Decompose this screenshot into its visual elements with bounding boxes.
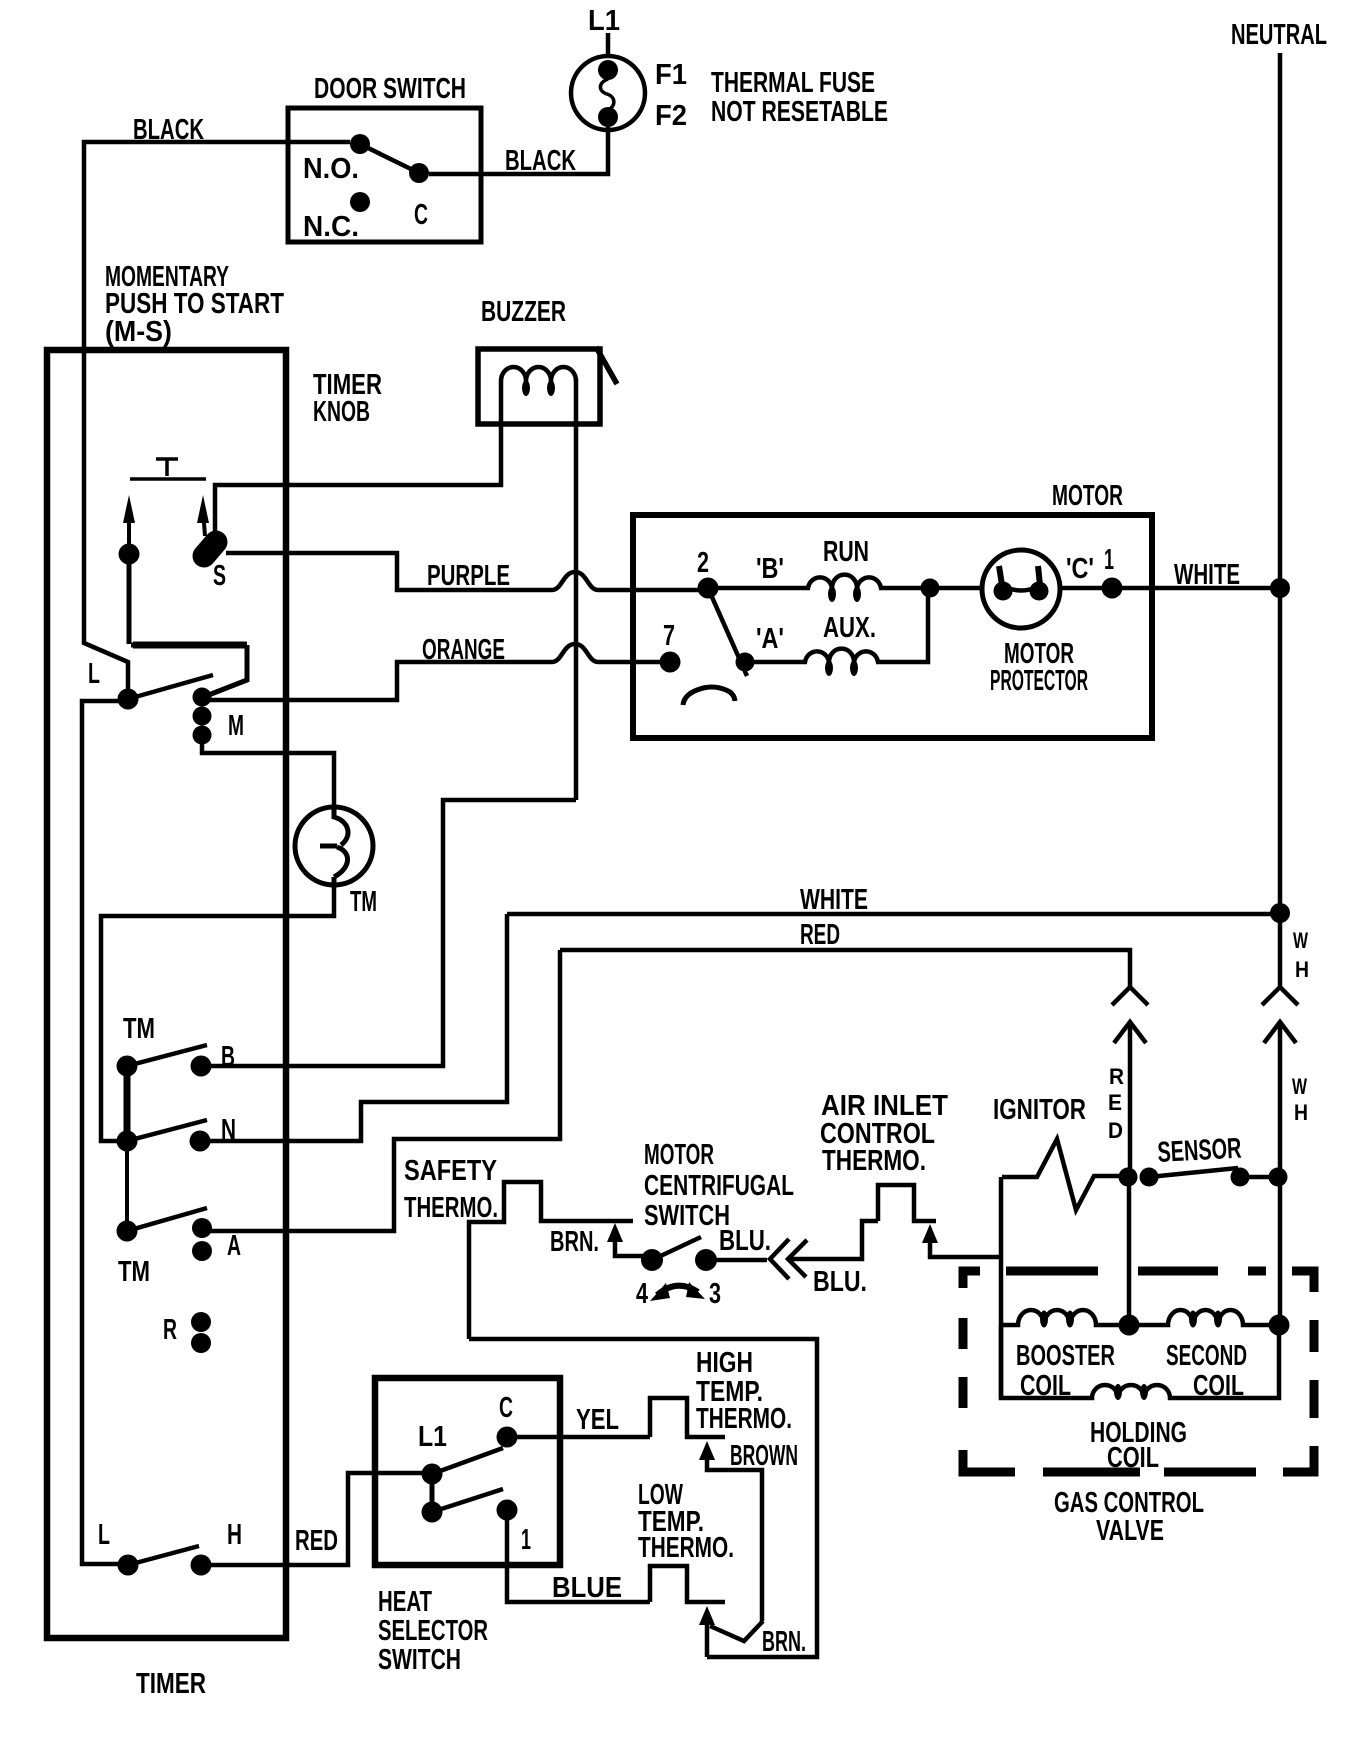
TM-B blade: [127, 1045, 207, 1066]
ignitor left vertical: [999, 1177, 1004, 1398]
BLU connector arrow: [922, 1224, 1001, 1257]
wire N to white: [209, 914, 507, 1141]
wire L1 lead: [606, 33, 611, 57]
svg-text:AUX.: AUX.: [823, 612, 876, 644]
timer contact TM-A pivot: [117, 1221, 138, 1242]
BRN connector arrow: [607, 1223, 643, 1256]
timer contact R: [191, 1312, 211, 1353]
svg-text:MOTOR: MOTOR: [644, 1139, 714, 1171]
rotation arc 4-3: [650, 1282, 705, 1301]
ignitor junction dots: [1119, 1168, 1159, 1187]
svg-text:SWITCH: SWITCH: [644, 1200, 730, 1232]
svg-text:SENSOR: SENSOR: [1157, 1133, 1243, 1169]
N blade: [127, 1120, 207, 1141]
high temp thermostat: [650, 1398, 725, 1437]
svg-text:THERMAL FUSE: THERMAL FUSE: [711, 67, 875, 99]
svg-text:1: 1: [1104, 544, 1114, 576]
motor terminal 2: [698, 578, 719, 599]
second coil right junction dot: [1269, 1315, 1290, 1336]
svg-text:WHITE: WHITE: [1174, 559, 1240, 591]
wire H to heat selector (RED): [211, 1473, 422, 1565]
push-to-start button: [130, 459, 206, 479]
svg-text:3: 3: [709, 1278, 721, 1310]
air inlet thermostat: [878, 1185, 936, 1221]
motor switch blade 2-A: [708, 588, 747, 676]
wire to protector: [939, 586, 982, 591]
wire S to purple: [226, 553, 552, 590]
svg-text:'B': 'B': [756, 553, 784, 585]
svg-text:1: 1: [521, 1524, 531, 1556]
motor terminal 7: [660, 652, 681, 673]
svg-text:A: A: [227, 1230, 241, 1262]
thermal fuse F1-F2: [571, 56, 645, 130]
safety thermostat: [469, 1182, 633, 1339]
svg-text:7: 7: [663, 620, 675, 652]
door switch box: [288, 108, 481, 242]
timer contact L: [118, 689, 139, 710]
svg-text:SWITCH: SWITCH: [378, 1644, 461, 1676]
svg-text:W: W: [1293, 928, 1308, 953]
gas control valve dashed border: [963, 1271, 1314, 1472]
purple hop: [552, 572, 598, 590]
L blade: [128, 675, 213, 699]
junction dot run-aux: [921, 579, 940, 598]
svg-text:4: 4: [636, 1278, 648, 1310]
flyweight arc: [683, 687, 735, 705]
door switch terminal C: [409, 163, 429, 183]
wire B to buzzer: [210, 800, 576, 1066]
white junction dot: [1270, 903, 1290, 923]
svg-text:THERMO.: THERMO.: [404, 1192, 498, 1224]
buzzer striker: [596, 347, 617, 384]
svg-text:BLACK: BLACK: [133, 114, 204, 146]
wire bypass loop to safety thermostat: [469, 1339, 817, 1657]
svg-text:KNOB: KNOB: [313, 396, 370, 428]
red connector arrow: [1114, 1022, 1146, 1177]
timer contact A: [192, 1218, 212, 1261]
TM-A blade: [127, 1208, 207, 1231]
wire orange to motor terminal 7: [598, 660, 663, 665]
aux winding: [754, 588, 928, 676]
svg-text:RED: RED: [295, 1525, 338, 1557]
svg-text:HIGH: HIGH: [696, 1347, 753, 1379]
BRN connector arrow bottom: [699, 1606, 715, 1657]
wire TM to N pivot: [101, 885, 334, 1141]
motor box: [633, 515, 1152, 738]
timer contact B: [191, 1056, 212, 1077]
svg-text:BLU.: BLU.: [813, 1266, 867, 1298]
svg-text:PURPLE: PURPLE: [427, 560, 510, 592]
svg-text:BRN.: BRN.: [762, 1626, 806, 1658]
svg-text:TIMER: TIMER: [136, 1668, 206, 1700]
pivot link B-N: [124, 1066, 131, 1141]
svg-text:L: L: [88, 658, 100, 690]
holding coil: [1001, 1325, 1279, 1400]
wire neutral: [1278, 53, 1283, 986]
wire motor to neutral: [1060, 586, 1280, 591]
white wire: [507, 912, 1280, 917]
svg-text:C: C: [414, 199, 428, 231]
svg-text:HEAT: HEAT: [378, 1586, 432, 1618]
svg-text:C: C: [499, 1392, 513, 1424]
svg-text:R: R: [163, 1314, 177, 1346]
svg-text:'C': 'C': [1066, 553, 1094, 585]
motor protector: [982, 550, 1060, 628]
timer motor TM: [295, 807, 373, 885]
svg-text:N.O.: N.O.: [303, 153, 359, 185]
heat selector terminal 1: [497, 1500, 518, 1521]
centrifugal switch contacts: [641, 1249, 717, 1271]
heat selector blade lower: [432, 1489, 503, 1512]
neutral connector chevron: [1262, 987, 1298, 1005]
motor terminal 1: [1102, 578, 1123, 599]
svg-text:THERMO.: THERMO.: [822, 1145, 926, 1177]
connector chevron outer: [770, 1239, 789, 1279]
svg-text:L1: L1: [418, 1421, 447, 1453]
svg-text:VALVE: VALVE: [1096, 1515, 1164, 1547]
booster coil and second coil: [1001, 1310, 1279, 1328]
BLUE wire: [507, 1519, 650, 1602]
svg-text:YEL: YEL: [576, 1404, 619, 1436]
svg-text:F2: F2: [655, 100, 687, 132]
wire L to lower timer: [82, 701, 120, 1564]
timer contact M: [193, 688, 212, 745]
timer contact N pivot: [117, 1131, 138, 1152]
wire ignitor to booster junction: [1127, 1177, 1132, 1325]
pivot link heat: [430, 1474, 435, 1512]
svg-text:BRN.: BRN.: [550, 1226, 599, 1258]
wire black timer to door switch: [84, 142, 350, 350]
white connector arrow: [1264, 1022, 1296, 1177]
svg-text:RED: RED: [800, 919, 840, 951]
svg-text:S: S: [213, 560, 226, 592]
svg-text:NEUTRAL: NEUTRAL: [1231, 19, 1327, 51]
svg-text:BROWN: BROWN: [730, 1440, 798, 1472]
svg-text:M: M: [228, 710, 244, 742]
wire M to orange: [208, 662, 552, 700]
svg-text:SELECTOR: SELECTOR: [378, 1615, 488, 1647]
sensor contacts: [1231, 1168, 1288, 1187]
svg-text:IGNITOR: IGNITOR: [993, 1094, 1086, 1126]
svg-text:D: D: [1108, 1118, 1123, 1143]
svg-text:L: L: [98, 1519, 110, 1551]
red connector chevron: [1112, 987, 1148, 1005]
svg-text:BLACK: BLACK: [505, 145, 576, 177]
svg-text:BLUE: BLUE: [552, 1572, 622, 1604]
svg-text:SECOND: SECOND: [1166, 1340, 1247, 1372]
contact dot on left rod: [119, 544, 140, 565]
buzzer coil: [215, 367, 576, 535]
svg-text:CENTRIFUGAL: CENTRIFUGAL: [644, 1170, 794, 1202]
heat selector lower pivot: [422, 1502, 443, 1523]
timer contact L pivot riser: [129, 562, 247, 696]
svg-text:WHITE: WHITE: [800, 884, 868, 916]
svg-text:THERMO.: THERMO.: [638, 1532, 734, 1564]
wire connector to air inlet thermostat: [788, 1221, 878, 1259]
door switch terminal N.C.: [350, 192, 370, 212]
svg-text:R: R: [1109, 1064, 1124, 1089]
timer contact L bottom: [118, 1555, 139, 1576]
buzzer right leg: [574, 379, 579, 800]
wire M to timer motor: [202, 741, 334, 807]
wire white to valve: [1278, 1177, 1283, 1325]
svg-text:2: 2: [697, 547, 709, 579]
svg-text:PROTECTOR: PROTECTOR: [990, 665, 1088, 697]
svg-text:TM: TM: [118, 1256, 150, 1288]
svg-text:(M-S): (M-S): [105, 316, 172, 348]
wire purple to motor terminal 2: [598, 588, 703, 593]
buzzer box: [478, 349, 600, 424]
wire timer inner black: [84, 348, 128, 699]
svg-text:W: W: [1292, 1074, 1307, 1099]
svg-text:BLU.: BLU.: [719, 1225, 771, 1257]
door switch terminal N.O.: [350, 134, 370, 154]
timer contact N: [190, 1131, 211, 1152]
svg-text:TM: TM: [123, 1013, 155, 1045]
svg-text:ORANGE: ORANGE: [422, 634, 505, 666]
booster-second junction dot: [1119, 1315, 1140, 1336]
svg-text:THERMO.: THERMO.: [696, 1403, 792, 1435]
push rod arrow left: [123, 495, 135, 546]
svg-text:L1: L1: [588, 5, 620, 37]
timer contact TM-B pivot: [117, 1056, 138, 1077]
door switch blade: [360, 144, 419, 173]
low temp switch blade: [710, 1621, 763, 1641]
red wire: [560, 950, 1130, 986]
svg-text:H: H: [1295, 957, 1309, 982]
heat selector blade L1-C: [432, 1448, 503, 1474]
svg-text:TM: TM: [350, 886, 377, 918]
wire fuse to door switch C: [429, 127, 608, 174]
BROWN connector arrow: [699, 1441, 762, 1621]
sensor blade: [1149, 1168, 1238, 1177]
centrifugal blade: [652, 1237, 701, 1260]
heat selector terminal L1: [422, 1464, 443, 1485]
svg-text:MOTOR: MOTOR: [1052, 480, 1123, 512]
svg-text:E: E: [1108, 1090, 1122, 1115]
wire A to red: [202, 950, 560, 1231]
svg-text:SAFETY: SAFETY: [404, 1155, 497, 1187]
run winding: [718, 575, 930, 602]
svg-text:N.C.: N.C.: [303, 211, 359, 243]
connector chevron inner: [788, 1240, 807, 1277]
svg-text:H: H: [227, 1519, 242, 1551]
svg-text:RUN: RUN: [823, 536, 869, 568]
pivot link N-A: [125, 1141, 129, 1231]
timer box: [47, 350, 286, 1638]
svg-text:DOOR SWITCH: DOOR SWITCH: [314, 73, 466, 105]
svg-text:H: H: [1294, 1100, 1308, 1125]
timer contact S: [204, 542, 216, 556]
svg-text:BUZZER: BUZZER: [481, 296, 566, 328]
svg-text:NOT RESETABLE: NOT RESETABLE: [711, 96, 888, 128]
motor switch dot A side: [736, 653, 755, 672]
wire centrifugal to connector: [716, 1258, 767, 1263]
timer contact H: [191, 1555, 212, 1576]
neutral junction dot: [1270, 578, 1290, 598]
svg-text:BOOSTER: BOOSTER: [1016, 1340, 1115, 1372]
heat selector switch box: [375, 1378, 560, 1565]
YEL wire: [517, 1435, 650, 1440]
low temp thermostat: [650, 1566, 725, 1602]
ignitor: [1002, 1139, 1120, 1210]
svg-text:'A': 'A': [756, 623, 784, 655]
L-H blade: [128, 1546, 199, 1565]
push rod arrow S: [197, 495, 209, 536]
heat selector terminal C: [497, 1427, 518, 1448]
svg-text:F1: F1: [655, 59, 687, 91]
orange hop: [552, 644, 598, 662]
